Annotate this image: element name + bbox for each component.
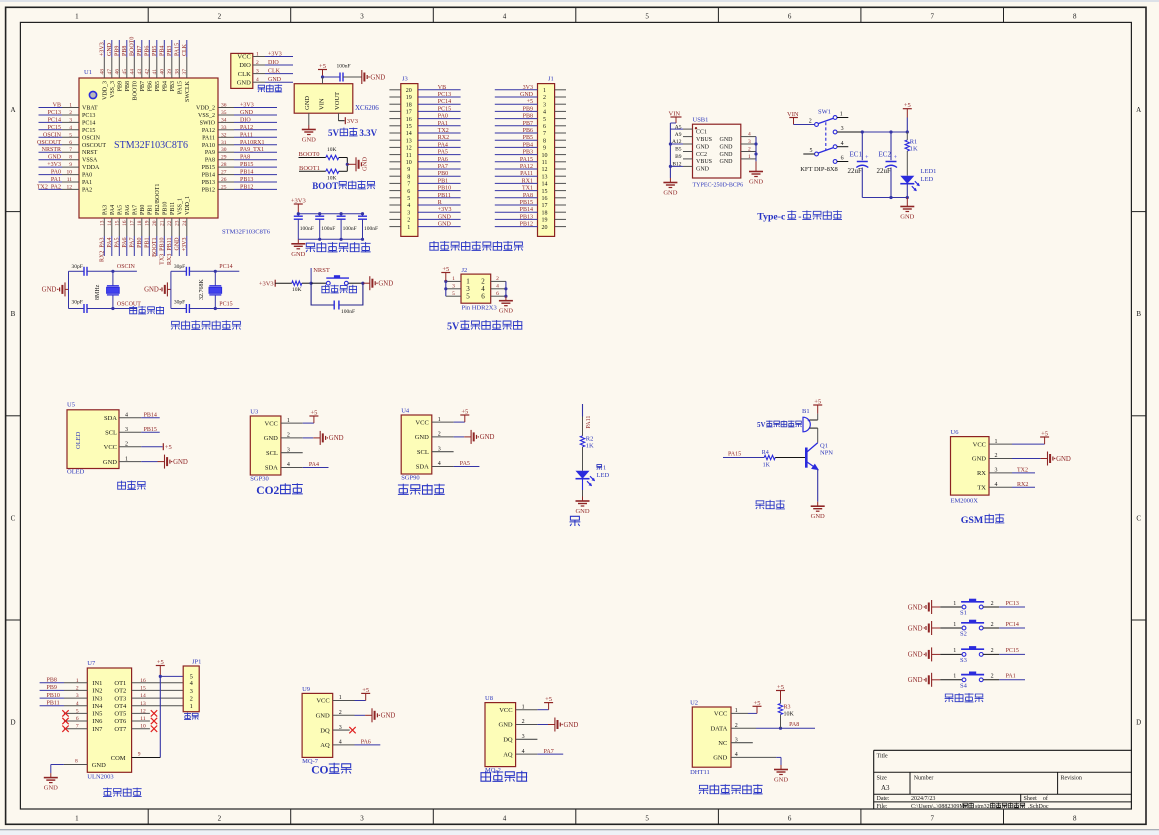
svg-text:1K: 1K: [763, 463, 771, 469]
svg-text:A3: A3: [881, 784, 890, 792]
svg-text:PA8: PA8: [789, 722, 799, 728]
svg-text:3: 3: [407, 210, 410, 216]
svg-text:+: +: [807, 419, 810, 424]
svg-text:R: R: [438, 200, 442, 206]
svg-text:13: 13: [542, 174, 548, 180]
svg-text:BOOT: BOOT: [312, 181, 338, 191]
svg-text:TX3 PB10: TX3 PB10: [160, 238, 166, 265]
svg-text:PC13: PC13: [438, 92, 451, 98]
svg-text:17: 17: [542, 203, 548, 209]
svg-text:15: 15: [542, 189, 548, 195]
svg-text:PC15: PC15: [82, 128, 95, 134]
svg-text:NRSTR: NRSTR: [42, 147, 61, 153]
svg-text:5: 5: [407, 196, 410, 202]
svg-text:2: 2: [496, 276, 499, 282]
svg-text:EC2: EC2: [879, 151, 892, 159]
svg-text:PB14: PB14: [144, 412, 157, 418]
svg-text:USB1: USB1: [693, 117, 709, 124]
svg-text:1: 1: [953, 674, 956, 680]
svg-text:PA6: PA6: [361, 740, 371, 746]
svg-text:46: 46: [115, 69, 121, 75]
svg-text:GND: GND: [774, 777, 788, 784]
svg-text:VDD_1: VDD_1: [185, 196, 191, 215]
svg-text:PC15: PC15: [219, 302, 232, 308]
svg-text:40: 40: [160, 69, 166, 75]
svg-text:PB6: PB6: [145, 46, 151, 56]
svg-text:GND: GND: [720, 159, 734, 165]
svg-text:26: 26: [221, 177, 227, 183]
svg-text:PC14: PC14: [219, 264, 232, 270]
svg-text:PB0: PB0: [140, 205, 146, 215]
svg-text:29: 29: [221, 155, 227, 161]
svg-text:PB9: PB9: [115, 46, 121, 56]
svg-text:PB4: PB4: [160, 46, 166, 56]
svg-text:PA10: PA10: [202, 143, 215, 149]
svg-text:IN4: IN4: [92, 703, 103, 710]
svg-text:5V: 5V: [328, 128, 340, 138]
svg-text:GND: GND: [972, 456, 986, 463]
svg-text:PA12: PA12: [520, 164, 533, 170]
svg-text:3: 3: [69, 117, 72, 123]
svg-text:44: 44: [130, 69, 136, 75]
svg-text:+3V3: +3V3: [259, 280, 274, 287]
svg-text:SDA: SDA: [104, 415, 117, 422]
svg-text:PB15: PB15: [202, 165, 215, 171]
svg-text:stm32: stm32: [975, 804, 990, 810]
svg-text:4: 4: [748, 132, 751, 138]
svg-text:DATA: DATA: [710, 725, 727, 732]
svg-text:PC13: PC13: [82, 113, 95, 119]
svg-text:22uF: 22uF: [877, 167, 892, 175]
svg-text:XC6206: XC6206: [355, 104, 379, 112]
svg-text:IN6: IN6: [92, 718, 103, 725]
svg-text:SCL: SCL: [105, 430, 117, 437]
svg-text:+3V3: +3V3: [438, 207, 452, 213]
svg-text:BOOT0: BOOT0: [132, 81, 138, 100]
svg-text:14: 14: [107, 220, 113, 226]
svg-text:TX: TX: [977, 485, 986, 492]
svg-text:18: 18: [137, 220, 143, 226]
svg-text:GND: GND: [316, 713, 330, 720]
svg-text:PA0: PA0: [438, 114, 448, 120]
svg-text:100nF: 100nF: [337, 64, 351, 70]
svg-text:GND: GND: [480, 434, 495, 441]
svg-text:PB11: PB11: [47, 701, 60, 707]
svg-text:U4: U4: [401, 408, 410, 415]
svg-text:1: 1: [75, 13, 79, 21]
svg-text:30pF: 30pF: [72, 264, 83, 270]
svg-text:PB3: PB3: [523, 150, 533, 156]
svg-text:4: 4: [256, 77, 259, 83]
svg-text:VSS_2: VSS_2: [198, 113, 215, 119]
svg-text:VB: VB: [53, 103, 61, 109]
svg-text:BOOT1: BOOT1: [299, 165, 320, 172]
svg-text:GND: GND: [564, 722, 579, 729]
svg-text:SWCLK: SWCLK: [185, 80, 191, 102]
svg-text:GND: GND: [1056, 456, 1071, 463]
svg-text:OT6: OT6: [114, 718, 127, 725]
svg-text:SDA: SDA: [265, 465, 278, 472]
svg-text:15: 15: [115, 220, 121, 226]
svg-text:PA5: PA5: [460, 461, 470, 467]
svg-text:VCC: VCC: [415, 419, 428, 426]
svg-text:2: 2: [218, 814, 222, 822]
svg-text:RX2: RX2: [438, 135, 449, 141]
svg-text:7: 7: [543, 131, 546, 137]
svg-text:U8: U8: [485, 695, 493, 702]
svg-text:VCC: VCC: [237, 54, 250, 61]
svg-text:VBUS: VBUS: [696, 159, 712, 165]
svg-text:U5: U5: [67, 402, 75, 409]
svg-text:GND: GND: [268, 77, 282, 83]
svg-text:47: 47: [107, 69, 113, 75]
svg-text:PB7: PB7: [523, 121, 533, 127]
svg-text:IN2: IN2: [92, 688, 102, 695]
svg-text:PA7: PA7: [130, 238, 136, 248]
svg-text:Type-c: Type-c: [757, 212, 786, 223]
svg-text:+5: +5: [527, 99, 533, 105]
svg-text:10K: 10K: [292, 287, 302, 293]
svg-text:PB13: PB13: [520, 214, 533, 220]
svg-text:2: 2: [991, 601, 994, 607]
svg-text:PB13: PB13: [240, 177, 253, 183]
svg-text:5: 5: [645, 814, 649, 822]
svg-text:GND: GND: [362, 157, 369, 171]
svg-text:OSCIN: OSCIN: [43, 132, 62, 138]
svg-text:PC15: PC15: [48, 125, 61, 131]
svg-text:7: 7: [930, 13, 934, 21]
svg-text:J3: J3: [402, 76, 408, 83]
svg-text:GND: GND: [720, 144, 734, 150]
svg-text:19: 19: [406, 95, 412, 101]
svg-text:J2: J2: [462, 267, 468, 274]
svg-text:PA6: PA6: [438, 157, 448, 163]
svg-text:3.3V: 3.3V: [359, 128, 377, 138]
svg-text:32.768K: 32.768K: [199, 279, 205, 301]
svg-text:3: 3: [543, 102, 546, 108]
svg-text:6: 6: [481, 293, 485, 301]
svg-text:IN5: IN5: [92, 711, 102, 718]
svg-text:35: 35: [221, 110, 227, 116]
svg-text:PA4: PA4: [309, 462, 319, 468]
svg-text:1K: 1K: [910, 146, 918, 153]
svg-text:15: 15: [406, 124, 412, 130]
svg-text:3: 3: [360, 13, 364, 21]
svg-text:GND: GND: [240, 110, 254, 116]
svg-text:File:: File:: [877, 804, 888, 810]
svg-text:EM2000X: EM2000X: [951, 498, 979, 505]
svg-text:U9: U9: [302, 686, 310, 693]
svg-text:100nF: 100nF: [300, 226, 314, 232]
svg-text:IN1: IN1: [92, 680, 102, 687]
svg-text:JP1: JP1: [192, 659, 201, 666]
svg-text:PC13: PC13: [1006, 601, 1019, 607]
svg-text:LED: LED: [921, 176, 934, 183]
svg-text:17: 17: [130, 220, 136, 226]
svg-text:PA1: PA1: [51, 177, 61, 183]
svg-text:5: 5: [466, 293, 470, 301]
svg-text:PA15: PA15: [175, 43, 181, 56]
svg-text:PB9: PB9: [47, 685, 57, 691]
svg-text:13: 13: [406, 138, 412, 144]
svg-text:1: 1: [407, 225, 410, 231]
svg-text:PB11: PB11: [170, 202, 176, 215]
svg-text:R2: R2: [586, 436, 594, 443]
svg-text:21: 21: [160, 220, 166, 226]
svg-text:4: 4: [496, 284, 499, 290]
svg-text:PC14: PC14: [438, 99, 451, 105]
svg-text:U3: U3: [250, 409, 258, 416]
svg-text:6: 6: [496, 291, 499, 297]
svg-text:37: 37: [182, 69, 188, 75]
svg-text:22uF: 22uF: [848, 167, 863, 175]
svg-text:PA9: PA9: [205, 150, 215, 156]
svg-text:GND: GND: [44, 785, 58, 792]
svg-text:AQ: AQ: [320, 742, 330, 749]
svg-text:GND: GND: [908, 625, 923, 632]
svg-text:PA9_TX1: PA9_TX1: [240, 147, 264, 153]
svg-text:PB7: PB7: [140, 81, 146, 91]
svg-text:A: A: [1136, 106, 1141, 114]
svg-text:GND: GND: [304, 96, 311, 110]
svg-text:3: 3: [360, 814, 364, 822]
svg-text:A9: A9: [675, 132, 682, 138]
svg-text:R1: R1: [910, 139, 918, 146]
svg-text:GND: GND: [48, 155, 62, 161]
svg-text:STM32F103C8T6: STM32F103C8T6: [222, 229, 271, 236]
svg-text:B5: B5: [675, 147, 682, 153]
svg-text:TYPEC-250D-BCP6: TYPEC-250D-BCP6: [693, 183, 744, 189]
svg-text:RX2: RX2: [1017, 482, 1028, 488]
svg-text:+3V3: +3V3: [182, 238, 188, 252]
svg-text:PA15: PA15: [177, 81, 183, 94]
svg-text:18: 18: [406, 102, 412, 108]
svg-text:PB15: PB15: [144, 427, 157, 433]
svg-text:CLK: CLK: [238, 71, 251, 78]
svg-text:U7: U7: [87, 660, 96, 667]
svg-text:GND: GND: [663, 190, 677, 197]
svg-text:8: 8: [69, 155, 72, 161]
svg-text:10K: 10K: [784, 712, 795, 718]
svg-text:2: 2: [543, 95, 546, 101]
svg-text:PA12: PA12: [240, 125, 253, 131]
svg-text:PA5: PA5: [438, 150, 448, 156]
svg-text:PA5: PA5: [117, 205, 123, 215]
svg-text:8: 8: [407, 174, 410, 180]
svg-text:5: 5: [452, 291, 455, 297]
svg-text:EC1: EC1: [850, 151, 863, 159]
svg-text:Size: Size: [877, 776, 888, 782]
svg-text:VOUT: VOUT: [334, 92, 341, 110]
svg-text:4: 4: [841, 141, 844, 147]
svg-text:GND: GND: [908, 677, 923, 684]
svg-text:1: 1: [953, 648, 956, 654]
svg-text:4: 4: [69, 125, 72, 131]
svg-text:1: 1: [190, 703, 193, 710]
svg-text:PA11: PA11: [202, 135, 215, 141]
svg-text:+3V3: +3V3: [100, 42, 106, 56]
svg-text:RX: RX: [977, 470, 986, 477]
svg-text:4: 4: [407, 203, 410, 209]
svg-text:B: B: [11, 310, 16, 318]
svg-text:PA15: PA15: [520, 157, 533, 163]
svg-text:IN3: IN3: [92, 695, 102, 702]
svg-text:GND: GND: [499, 308, 513, 315]
svg-text:PA15: PA15: [728, 451, 741, 457]
svg-text:PB12: PB12: [240, 184, 253, 190]
svg-text:DHT11: DHT11: [690, 769, 710, 776]
svg-text:PB6: PB6: [523, 128, 533, 134]
svg-text:1: 1: [69, 103, 72, 109]
svg-text:BOOT1: BOOT1: [152, 238, 158, 257]
svg-text:2: 2: [256, 60, 259, 66]
svg-text:36: 36: [221, 103, 227, 109]
svg-text:AQ: AQ: [503, 751, 513, 758]
svg-text:38: 38: [175, 69, 181, 75]
svg-text:GND: GND: [438, 222, 452, 228]
svg-text:30pF: 30pF: [174, 264, 185, 270]
svg-text:PB12: PB12: [520, 222, 533, 228]
svg-text:D: D: [10, 719, 15, 727]
svg-text:10: 10: [406, 160, 412, 166]
svg-text:GSM: GSM: [961, 515, 984, 526]
svg-text:14: 14: [406, 131, 412, 137]
svg-text:VDD_2: VDD_2: [196, 106, 215, 112]
svg-text:PB8: PB8: [122, 46, 128, 56]
svg-text:2024/7/23: 2024/7/23: [911, 796, 935, 802]
svg-text:CLK: CLK: [268, 69, 281, 75]
svg-text:RX2 PA3: RX2 PA3: [100, 238, 106, 262]
svg-text:41: 41: [152, 69, 158, 75]
svg-text:VB: VB: [438, 85, 446, 91]
svg-text:PB9: PB9: [523, 106, 533, 112]
svg-text:S1: S1: [960, 610, 967, 617]
svg-text:9: 9: [138, 752, 141, 758]
svg-text:SGP30: SGP30: [250, 476, 268, 483]
svg-text:+3V3: +3V3: [268, 52, 282, 58]
svg-text:3: 3: [256, 69, 259, 75]
svg-text:C: C: [1136, 514, 1141, 522]
svg-text:PC15: PC15: [438, 106, 451, 112]
svg-text:GND: GND: [264, 435, 278, 442]
svg-text:11: 11: [542, 160, 548, 166]
svg-text:VCC: VCC: [104, 444, 117, 451]
svg-text:3: 3: [190, 688, 193, 695]
svg-text:DQ: DQ: [503, 737, 513, 744]
svg-text:GND: GND: [370, 74, 385, 81]
svg-text:DIO: DIO: [240, 117, 251, 123]
svg-text:8: 8: [543, 138, 546, 144]
svg-text:GND: GND: [378, 281, 393, 288]
svg-text:GND: GND: [42, 287, 57, 294]
svg-text:6: 6: [841, 156, 844, 162]
svg-text:LED1: LED1: [921, 168, 937, 175]
svg-text:5: 5: [543, 117, 546, 123]
svg-text:GND: GND: [107, 42, 113, 56]
svg-text:GND: GND: [144, 287, 159, 294]
svg-text:13: 13: [100, 220, 106, 226]
svg-text:19: 19: [145, 220, 151, 226]
svg-text:VCC: VCC: [265, 420, 278, 427]
svg-text:1: 1: [953, 601, 956, 607]
svg-text:1: 1: [256, 52, 259, 58]
svg-text:6: 6: [543, 124, 546, 130]
svg-text:30: 30: [221, 147, 227, 153]
svg-text:GND: GND: [720, 137, 734, 143]
svg-text:45: 45: [122, 69, 128, 75]
svg-text:CO: CO: [311, 765, 328, 777]
svg-text:C:\Users\..\0882309M: C:\Users\..\0882309M: [911, 804, 965, 810]
svg-text:R3: R3: [784, 705, 791, 711]
svg-text:PB13: PB13: [202, 180, 215, 186]
svg-text:5: 5: [69, 132, 72, 138]
svg-text:VCC: VCC: [714, 711, 727, 718]
svg-text:PB4: PB4: [162, 81, 168, 91]
svg-text:OT1: OT1: [114, 680, 126, 687]
svg-text:SW1: SW1: [818, 109, 831, 116]
svg-text:PB10: PB10: [162, 202, 168, 215]
svg-text:100nF: 100nF: [341, 309, 355, 315]
svg-text:PB2/BOOT1: PB2/BOOT1: [155, 184, 161, 215]
svg-text:PA11: PA11: [520, 171, 533, 177]
svg-text:PA2: PA2: [82, 187, 92, 193]
svg-text:5: 5: [810, 148, 813, 154]
svg-text:PA4: PA4: [438, 142, 448, 148]
svg-text:5: 5: [645, 13, 649, 21]
svg-text:19: 19: [542, 218, 548, 224]
svg-text:PB15: PB15: [520, 200, 533, 206]
svg-text:RX3 PB11: RX3 PB11: [167, 238, 173, 265]
svg-text:CC1: CC1: [696, 129, 707, 135]
svg-text:PB8: PB8: [523, 114, 533, 120]
svg-text:IN7: IN7: [92, 726, 103, 733]
svg-text:B1: B1: [802, 408, 810, 415]
svg-text:PA5: PA5: [115, 238, 121, 248]
svg-text:6: 6: [69, 140, 72, 146]
svg-text:PB1: PB1: [438, 178, 448, 184]
svg-text:100nF: 100nF: [321, 226, 335, 232]
svg-text:GND: GND: [811, 513, 825, 520]
svg-text:PC14: PC14: [48, 117, 61, 123]
svg-text:PB5: PB5: [152, 46, 158, 56]
svg-text:PA1: PA1: [82, 180, 92, 186]
svg-text:10K: 10K: [327, 147, 337, 153]
svg-text:NRST: NRST: [313, 267, 330, 274]
svg-text:12: 12: [406, 146, 412, 152]
svg-text:11: 11: [406, 153, 412, 159]
svg-text:PB1: PB1: [147, 205, 153, 215]
svg-text:CO2: CO2: [256, 485, 279, 497]
svg-text:12: 12: [542, 167, 548, 173]
svg-text:B9: B9: [675, 154, 682, 160]
svg-text:PA7: PA7: [132, 205, 138, 215]
svg-text:6: 6: [788, 814, 792, 822]
svg-text:GND: GND: [575, 508, 589, 515]
svg-text:DIO: DIO: [268, 60, 279, 66]
svg-text:S3: S3: [960, 657, 967, 664]
svg-text:PA4: PA4: [107, 238, 113, 248]
svg-text:Date:: Date:: [877, 796, 890, 802]
svg-text:Pin HDR2X3: Pin HDR2X3: [462, 305, 497, 312]
svg-text:2: 2: [991, 648, 994, 654]
svg-text:PA8: PA8: [205, 158, 215, 164]
svg-text:PA10RX1: PA10RX1: [240, 140, 264, 146]
svg-text:39: 39: [167, 69, 173, 75]
svg-text:PA1: PA1: [1006, 674, 1016, 680]
svg-text:2: 2: [69, 110, 72, 116]
svg-text:PB8: PB8: [125, 81, 131, 91]
svg-text:Revision: Revision: [1061, 776, 1082, 782]
